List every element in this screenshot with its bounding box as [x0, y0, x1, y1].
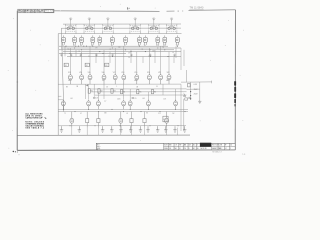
svg-text:2K: 2K [162, 47, 164, 49]
svg-text:C12: C12 [158, 113, 161, 115]
wire vertical drop [173, 57, 175, 64]
antenna symbol A3 [107, 18, 110, 26]
switch box S1 [64, 63, 68, 67]
tube V21 (row 2) [158, 72, 162, 84]
wire drop to ground bus [131, 128, 133, 136]
capacitor mark C8 [173, 54, 175, 56]
wire vertical drop [130, 50, 132, 63]
ground symbol 2 [78, 126, 81, 132]
svg-text:+: + [183, 92, 184, 94]
page number mark [242, 154, 246, 156]
wire vertical drop [168, 52, 170, 74]
wire vertical drop [95, 53, 97, 63]
module box Z4 [143, 112, 146, 128]
wire bus mid a [58, 83, 181, 85]
svg-text:7-9: 7-9 [175, 144, 177, 146]
tube V10 (row 1) [156, 35, 160, 47]
title block serial text below [212, 151, 222, 153]
svg-text:SCHEMATIC DIAGRAM SHEET 2: SCHEMATIC DIAGRAM SHEET 2 [18, 11, 44, 14]
svg-text:220K: 220K [117, 98, 121, 100]
capacitor mark C3 [80, 54, 82, 56]
notes block 1 [25, 113, 46, 120]
svg-text:R1: R1 [91, 91, 93, 93]
svg-text:V5: V5 [98, 45, 100, 47]
IF transformer T3 [103, 24, 114, 33]
top-left title stamp box [18, 9, 54, 14]
wire vertical drop mid [180, 95, 182, 131]
wire vertical drop mid [123, 84, 125, 99]
tube V14 (row 2) [79, 72, 83, 84]
svg-text:V1: V1 [62, 45, 64, 47]
svg-text:FIG 7-9 RCVR: FIG 7-9 RCVR [212, 144, 223, 146]
module box Z2 [97, 112, 100, 128]
IF transformer T1 [65, 24, 76, 33]
tube V17 (row 2) [113, 72, 117, 84]
border frame right line [234, 10, 236, 150]
wire vertical drop mid [175, 89, 177, 102]
tube V5 (row 1) [98, 35, 102, 47]
resistor R4 [121, 90, 126, 94]
wire vertical drop [64, 46, 66, 56]
switch box S2 [85, 63, 89, 67]
svg-text:1K: 1K [78, 51, 80, 53]
wire vertical drop mid [183, 99, 185, 131]
resistor R1 [88, 89, 93, 94]
wire bus row 6 [67, 56, 181, 58]
svg-text:V9: V9 [144, 45, 146, 47]
wire drop to ground bus [144, 128, 146, 136]
ground symbol 5 [119, 126, 122, 132]
power filter box [188, 84, 191, 87]
svg-text:.05: .05 [141, 49, 143, 51]
wire bus row 5 [59, 52, 126, 54]
wire vertical drop [69, 48, 71, 74]
wire vertical drop mid [147, 92, 149, 100]
svg-text:S3: S3 [105, 65, 107, 67]
svg-text:.02: .02 [126, 113, 128, 115]
wire vertical drop mid [93, 84, 95, 97]
tube V22 (row 2) [167, 72, 171, 84]
tube V19 (row 2) [134, 72, 138, 84]
wire vertical drop [103, 50, 105, 74]
svg-text:07: 07 [225, 148, 227, 150]
wire vertical drop [136, 52, 138, 74]
wire vertical drop [75, 50, 77, 57]
antenna symbol A5 [152, 18, 155, 26]
wire vertical drop mid [97, 92, 99, 101]
title block cell texts [164, 143, 232, 150]
capacitor mark C6 [130, 54, 132, 56]
svg-text:4.7: 4.7 [80, 113, 82, 115]
wire vertical drop [175, 46, 177, 58]
capacitor C8 [93, 97, 98, 99]
terminal box right [185, 98, 188, 100]
svg-text:33K: 33K [104, 113, 107, 115]
svg-text:C7: C7 [148, 56, 150, 58]
wire bus mid d [95, 94, 187, 96]
tube V7 (row 1) [124, 35, 128, 47]
electrolytic capacitor C20 [183, 92, 186, 96]
svg-text:R6: R6 [154, 91, 156, 93]
wire bus lower b [58, 111, 188, 113]
top-right sheet label [189, 7, 204, 10]
svg-text:T7: T7 [104, 101, 106, 103]
svg-text:R3: R3 [114, 91, 116, 93]
title block grid lines [164, 143, 236, 149]
ground symbol 7 [139, 126, 142, 132]
tube V31 (row 4) [119, 112, 123, 128]
wire drop to ground bus [166, 128, 168, 136]
svg-text:R2: R2 [101, 91, 103, 93]
tube V13 (row 2) [68, 72, 72, 84]
svg-text:K1: K1 [163, 119, 165, 121]
antenna symbol A6 [170, 18, 173, 26]
ground symbol 6 [129, 126, 132, 132]
wire bus row 2 [61, 47, 181, 49]
tube V8 (row 1) [138, 35, 142, 47]
tube V6 (row 1) [111, 35, 115, 47]
wire junction dots lower [63, 109, 186, 126]
svg-text:IF: IF [179, 148, 180, 150]
module box Z3 [130, 112, 133, 128]
resistor R5 [137, 90, 142, 94]
svg-text:40: 40 [230, 144, 232, 146]
svg-text:V14: V14 [79, 72, 82, 74]
resistor R3 [111, 89, 116, 94]
wire vertical drop mid [88, 84, 90, 99]
tube V4 (row 1) [91, 35, 95, 47]
wire vertical drop [142, 57, 144, 64]
svg-text:C6: C6 [128, 57, 130, 59]
svg-text:220: 220 [67, 49, 70, 51]
resistor R2 [98, 89, 103, 94]
svg-text:C8: C8 [96, 98, 98, 100]
IF transformer T4 [130, 24, 141, 33]
svg-text:40: 40 [197, 148, 199, 150]
rail B+ bus [61, 27, 181, 29]
ground symbol 8 [146, 126, 149, 132]
svg-text:V6: V6 [111, 45, 113, 47]
wire to power circuit [185, 70, 187, 82]
tube V29 (row 3) [174, 100, 178, 110]
svg-text:SEE TABLE 7-2: SEE TABLE 7-2 [25, 127, 44, 130]
antenna symbol A2 [88, 18, 91, 26]
wire vertical drop mid [180, 84, 182, 95]
svg-text:X: X [197, 144, 198, 146]
svg-text:6J6: 6J6 [102, 80, 105, 82]
wire drop to ground bus [86, 128, 88, 136]
wire junction dots upper [65, 46, 178, 57]
svg-text:CH: CH [188, 144, 190, 146]
svg-text:V21: V21 [158, 72, 161, 74]
svg-text:NX: NX [219, 148, 221, 150]
wire vertical drop [160, 46, 162, 73]
svg-text:.1: .1 [116, 86, 117, 88]
tube V11 (row 1) [163, 35, 167, 47]
svg-text:.01: .01 [109, 49, 111, 51]
svg-text:V11: V11 [163, 45, 166, 47]
svg-text:V3: V3 [80, 45, 82, 47]
svg-text:R9: R9 [66, 87, 68, 89]
capacitor mark C1 [60, 54, 62, 56]
tube V12 (row 1) [176, 35, 180, 47]
antenna symbol A4 [134, 18, 137, 26]
svg-text:47K: 47K [95, 47, 98, 49]
ground symbol 12 [183, 126, 186, 132]
ground symbol 4 [110, 126, 113, 132]
capacitor mark C2 [70, 54, 72, 56]
svg-text:PS: PS [184, 148, 186, 150]
wire drop to ground bus [176, 128, 178, 136]
wire vertical drop [109, 52, 111, 63]
switch box S3 [105, 63, 109, 67]
svg-text:C4: C4 [108, 56, 110, 58]
svg-text:R5: R5 [139, 91, 141, 93]
svg-text:V15: V15 [88, 72, 91, 74]
wire bus lower a [58, 108, 188, 110]
IF transformer T6 [166, 24, 177, 33]
wire vertical drop mid [129, 89, 131, 100]
svg-text:FIG 7-9: FIG 7-9 [45, 11, 53, 13]
capacitor mark C5 [111, 54, 113, 56]
svg-text:C2: C2 [88, 56, 90, 58]
svg-text:V10: V10 [156, 45, 159, 47]
ground symbol 1 [60, 126, 63, 132]
tube V32 (row 4) [165, 112, 169, 128]
wire vertical drop [123, 46, 125, 73]
top border tick mark [128, 7, 130, 9]
tube V20 (row 2) [147, 72, 151, 84]
arrow mark mid [86, 85, 88, 87]
rail screen bus [58, 33, 181, 35]
electrolytic capacitor C21 [188, 97, 192, 99]
capacitor C9 [132, 98, 137, 100]
left border tick [17, 81, 19, 83]
wire vertical drop mid [162, 84, 164, 95]
ground symbol 10 [164, 126, 167, 132]
svg-text:RF: RF [179, 144, 181, 146]
wire vertical drop [183, 50, 185, 66]
svg-text:50: 50 [156, 86, 158, 88]
svg-text:8K: 8K [146, 113, 148, 115]
svg-text:V17: V17 [113, 72, 116, 74]
wire drop to ground bus [71, 128, 73, 136]
svg-text:5K: 5K [106, 87, 108, 89]
capacitor mark C4 [95, 54, 97, 56]
module box Z1 [86, 112, 89, 128]
svg-text:1.5K: 1.5K [163, 98, 166, 100]
wire bus mid b [91, 88, 187, 90]
svg-text:MOD 2B: MOD 2B [201, 148, 207, 150]
wire drop to ground bus [97, 128, 99, 136]
right border dark streak [234, 81, 236, 106]
border frame left line [16, 11, 18, 151]
svg-text:V16: V16 [102, 72, 105, 74]
border frame bottom line [17, 149, 235, 152]
svg-text:470: 470 [128, 53, 131, 55]
title block outer box [96, 143, 235, 150]
svg-text:V2: V2 [73, 45, 75, 47]
wire vertical drop [180, 48, 182, 70]
IF transformer T5 [149, 24, 160, 33]
rail top bus [63, 23, 181, 25]
svg-text:TM 5840-7-9: TM 5840-7-9 [212, 151, 222, 153]
ground symbol 11 [173, 126, 176, 132]
svg-text:V19: V19 [134, 72, 137, 74]
capacitor mark C7 [149, 54, 151, 56]
wire vertical drop [114, 48, 116, 74]
svg-text:V22: V22 [167, 72, 170, 74]
svg-text:SHEET 2 OF 2: SHEET 2 OF 2 [212, 148, 222, 150]
tube V15 (row 2) [88, 72, 92, 84]
svg-text:B2: B2 [193, 148, 195, 150]
title block left cell text [97, 145, 101, 151]
tube V30 (row 4) [70, 112, 74, 128]
svg-text:+: + [191, 98, 192, 100]
wire bus row 1 [59, 45, 168, 47]
wire drop to ground bus [120, 128, 122, 136]
border frame top right segment [189, 9, 236, 12]
ground symbol 9 [156, 126, 159, 132]
IF transformer T2 [84, 24, 95, 33]
left feed wire vertical [57, 34, 59, 136]
ground return bus [17, 134, 190, 136]
svg-text:SCH: SCH [164, 144, 167, 146]
svg-text:10K: 10K [152, 51, 155, 53]
scan specks [8, 4, 244, 149]
label tag mid [104, 101, 106, 103]
title block dark cell [200, 143, 211, 147]
component value labels [64, 47, 175, 115]
border frame top line [17, 10, 159, 13]
tube V28 (row 3) [147, 100, 151, 110]
tube V25 (row 3) [97, 100, 101, 110]
resistor R6 [151, 90, 156, 94]
wire vertical drop [148, 48, 150, 74]
svg-text:S2: S2 [86, 65, 88, 67]
module box Z5 [163, 116, 168, 122]
wire bus lower c [58, 125, 186, 127]
svg-text:T2: T2 [64, 113, 66, 115]
tube V9 (row 1) [144, 35, 148, 47]
wire vertical drop [89, 46, 91, 73]
wire bus row 3 [59, 49, 174, 51]
power circuit wires [181, 81, 212, 101]
border frame top dash segment [167, 10, 184, 12]
svg-text:S1: S1 [65, 65, 67, 67]
tube V27 (row 3) [128, 100, 132, 110]
tube V24 (row 3) [87, 100, 91, 110]
left feed wire vertical 2 [61, 28, 63, 111]
corner ink dots [13, 151, 20, 155]
tube V18 (row 2) [121, 72, 125, 84]
svg-text:V7: V7 [124, 45, 126, 47]
ground symbol 3 [101, 126, 104, 132]
svg-text:.001: .001 [70, 98, 73, 100]
svg-text:.01: .01 [172, 52, 174, 54]
tube V26 (row 3) [122, 100, 126, 110]
wire bus mid c [91, 91, 187, 93]
svg-text:V13: V13 [68, 72, 71, 74]
power ground symbol [198, 100, 201, 103]
svg-text:CAPACITORS UUF: CAPACITORS UUF [25, 117, 43, 120]
wire vertical drop [154, 50, 156, 63]
tube V16 (row 2) [102, 72, 106, 84]
svg-text:.005: .005 [142, 98, 145, 100]
svg-text:V20: V20 [147, 72, 150, 74]
wire bus row 4 [63, 51, 181, 53]
wire stub row3 grid [58, 96, 63, 100]
svg-text:IF: IF [225, 144, 226, 146]
svg-text:100: 100 [118, 47, 121, 49]
tube V23 (row 3) [62, 100, 66, 110]
tube V2 (row 1) [73, 35, 77, 47]
wire vertical drop mid [103, 84, 105, 99]
power labels [194, 84, 199, 95]
wire vertical drop mid [85, 84, 87, 99]
svg-text:V18: V18 [121, 72, 124, 74]
antenna symbol A1 [69, 18, 72, 26]
power node dots [190, 91, 191, 100]
svg-text:C9: C9 [134, 98, 136, 100]
wire vertical drop [81, 52, 83, 74]
notes block 2 [25, 122, 44, 130]
tube V1 (row 1) [62, 35, 66, 47]
svg-text:2: 2 [230, 148, 231, 150]
tube V3 (row 1) [80, 35, 84, 47]
